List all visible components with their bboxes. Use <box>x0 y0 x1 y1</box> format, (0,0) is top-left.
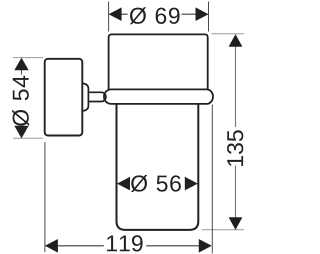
holder collar ring <box>104 89 213 104</box>
dim Ø69: arrows <box>109 7 209 21</box>
dim Ø56: arrows <box>117 177 198 191</box>
dim Ø54: extension lines <box>13 58 43 139</box>
dim Ø54: dimension line <box>21 70 23 75</box>
connector arm pill <box>88 92 106 101</box>
dim Ø54: arrows <box>14 58 28 139</box>
dim 119: extension lines <box>45 105 212 254</box>
glass lower body (Ø56 section) <box>117 104 199 230</box>
dim Ø69: label <box>130 7 180 24</box>
dim Ø54: label <box>12 76 29 126</box>
dim 135: dimension line <box>235 47 237 218</box>
mounting flange on plate <box>83 83 88 111</box>
dim Ø56: label <box>131 175 181 192</box>
tumbler rim (upper cup, Ø69 section) <box>109 34 208 89</box>
dim 119: label <box>107 235 143 251</box>
wall plate (Ø54 rosette) <box>45 59 83 136</box>
dim 135: arrows <box>229 34 243 230</box>
dim 135: label <box>227 130 243 166</box>
dim 119: dimension line <box>57 245 200 247</box>
dim 135: extension lines <box>202 34 244 230</box>
dim Ø69: extension lines <box>109 2 209 32</box>
dim 119: arrows <box>45 239 212 253</box>
dim Ø69: dimension line <box>119 13 197 15</box>
